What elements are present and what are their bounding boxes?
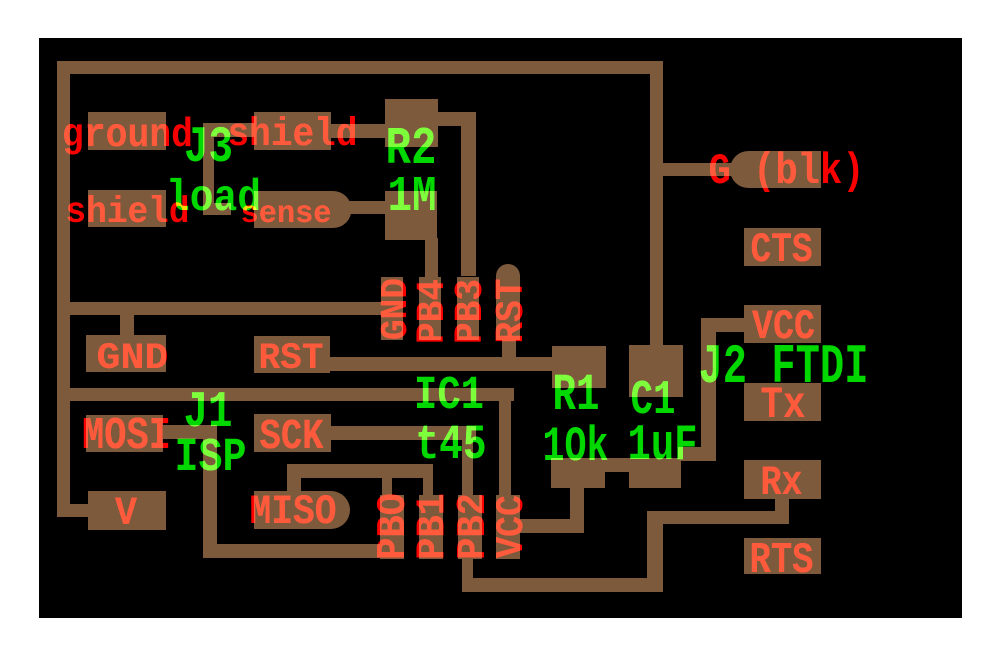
- svg-text:RST: RST: [490, 279, 535, 344]
- svg-text:J2 FTDI: J2 FTDI: [699, 337, 869, 399]
- svg-text:Rx: Rx: [761, 460, 803, 507]
- svg-text:MOSI: MOSI: [82, 411, 171, 462]
- svg-text:1uF: 1uF: [628, 418, 698, 475]
- svg-text:G (blk): G (blk): [709, 148, 865, 197]
- svg-text:1Ok: 1Ok: [543, 418, 609, 475]
- svg-text:J3: J3: [184, 120, 233, 176]
- svg-text:IC1: IC1: [414, 368, 484, 423]
- svg-text:load: load: [166, 172, 261, 224]
- svg-text:shield: shield: [228, 113, 358, 157]
- svg-text:t45: t45: [416, 419, 487, 474]
- svg-text:RTS: RTS: [750, 535, 814, 585]
- svg-text:MISO: MISO: [250, 490, 337, 536]
- svg-text:SCK: SCK: [260, 412, 325, 461]
- svg-text:V: V: [115, 491, 137, 536]
- svg-text:PB3: PB3: [449, 279, 494, 344]
- svg-text:VCC: VCC: [490, 495, 534, 558]
- svg-text:1M: 1M: [388, 170, 437, 226]
- svg-text:R1: R1: [553, 367, 600, 425]
- svg-text:GND: GND: [97, 339, 169, 380]
- svg-text:ISP: ISP: [175, 430, 247, 484]
- svg-text:RST: RST: [259, 337, 324, 379]
- svg-text:CTS: CTS: [751, 228, 813, 275]
- svg-text:ground: ground: [62, 113, 193, 159]
